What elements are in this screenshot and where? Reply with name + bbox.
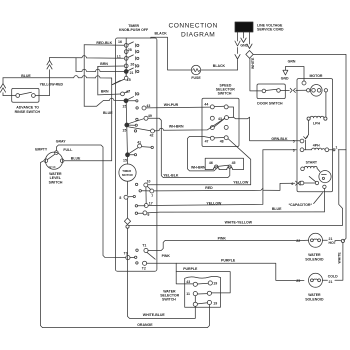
wire blue from timer contact 9 to capacitor	[147, 212, 325, 213]
motor ground terminal	[302, 81, 306, 85]
wire grn-blk speed selector to motor terminal 5	[228, 117, 300, 141]
svg-text:T2: T2	[142, 267, 146, 271]
contact 11	[186, 292, 190, 296]
line voltage service cord plug	[235, 22, 253, 32]
4PH winding	[313, 144, 320, 148]
svg-text:L1: L1	[117, 55, 121, 59]
capacitor label with pointer	[289, 203, 313, 207]
svg-text:COLD: COLD	[328, 274, 338, 278]
timer contact 9	[143, 211, 147, 215]
svg-text:*CAPACITOR*: *CAPACITOR*	[289, 203, 313, 207]
svg-text:MOTOR: MOTOR	[122, 173, 134, 177]
timer contact 27	[121, 92, 125, 96]
svg-text:15: 15	[122, 105, 126, 109]
wire yellow-red from advance switch to timer L1	[35, 95, 49, 97]
svg-text:17: 17	[149, 202, 153, 206]
svg-text:SOLENOID: SOLENOID	[305, 258, 324, 262]
svg-text:22: 22	[296, 239, 300, 243]
wire from speed selector 47 to 46 terminal	[188, 136, 217, 171]
svg-text:BLUE: BLUE	[103, 111, 113, 115]
svg-text:26: 26	[130, 62, 134, 66]
svg-text:WATER: WATER	[308, 293, 321, 297]
svg-text:WH-BRN: WH-BRN	[191, 166, 206, 170]
wire red-blk into timer 16	[96, 41, 112, 45]
timer contact T2	[143, 261, 147, 265]
svg-text:1: 1	[335, 145, 337, 149]
wire yel-blk from timer contact 49 down to 45 terminal	[163, 173, 179, 177]
node: vertical joining terminal 3, red and yellow	[148, 150, 263, 206]
timer box	[119, 24, 149, 32]
svg-text:49: 49	[148, 114, 152, 118]
wire capacitor terminal down to blue wire	[323, 189, 325, 212]
svg-text:15: 15	[122, 129, 126, 133]
timer contact T1	[144, 248, 148, 252]
wire white run along top to right edge	[253, 54, 346, 240]
svg-text:44: 44	[204, 102, 208, 106]
svg-text:47: 47	[205, 139, 209, 143]
wire gray feed to contact 15 bus	[84, 98, 124, 106]
svg-text:15: 15	[123, 158, 127, 162]
svg-text:43: 43	[186, 280, 190, 284]
motor overload protector	[311, 85, 323, 97]
svg-text:WHITE: WHITE	[338, 252, 342, 264]
svg-text:43: 43	[218, 117, 222, 121]
svg-text:6: 6	[291, 182, 293, 186]
wire purple from timer T2 to cold solenoid	[221, 258, 236, 262]
water level switch	[45, 152, 62, 169]
svg-text:16: 16	[118, 40, 122, 44]
svg-text:GRN: GRN	[288, 60, 296, 64]
wire white-yellow from timer to motor terminal 1	[225, 220, 253, 224]
svg-text:42: 42	[150, 134, 154, 138]
svg-text:BRN: BRN	[101, 90, 109, 94]
svg-text:11: 11	[186, 292, 190, 296]
wire purple branch to water selector switch	[183, 267, 198, 271]
wire wh-pur timer 43 to speed selector 44	[164, 103, 179, 107]
timer motor lead and junction 8	[127, 181, 129, 194]
contact 43	[210, 116, 214, 120]
svg-text:HOT: HOT	[329, 241, 337, 245]
svg-text:19: 19	[213, 302, 217, 306]
terminal 6	[300, 181, 304, 185]
wire gray from water level switch to timer T0	[56, 145, 125, 258]
door switch S1	[257, 84, 285, 99]
svg-text:PINK: PINK	[218, 236, 227, 240]
wire branch to contact 21	[75, 58, 77, 72]
svg-text:MOTOR: MOTOR	[310, 74, 323, 78]
motor box	[310, 74, 323, 78]
connector diamond timer motor	[124, 218, 130, 224]
svg-text:BLACK: BLACK	[213, 64, 226, 68]
timer contact 42	[134, 130, 136, 132]
svg-text:15: 15	[127, 78, 131, 82]
speed selector switch	[216, 84, 235, 96]
svg-text:FULL: FULL	[63, 148, 73, 152]
svg-text:SWITCH: SWITCH	[162, 298, 176, 302]
svg-text:43: 43	[146, 104, 150, 108]
svg-text:GRAY: GRAY	[56, 140, 66, 144]
cold water solenoid	[309, 273, 323, 287]
timer junction 15 mid	[125, 103, 128, 123]
svg-text:BRN: BRN	[100, 62, 108, 66]
water selector switch	[160, 290, 179, 302]
GND lead of service cord	[243, 32, 245, 38]
terminal 5	[300, 139, 304, 143]
wire white service lead + connector diamond	[249, 32, 251, 44]
timer contact bus wire	[125, 38, 127, 76]
svg-text:YELLOW-RED: YELLOW-RED	[40, 83, 64, 87]
timer motor	[127, 157, 129, 164]
timer contact L1	[124, 57, 128, 61]
title CONNECTION DIAGRAM	[169, 23, 218, 39]
svg-text:41: 41	[137, 141, 141, 145]
contact 47 48	[210, 136, 214, 140]
fuse F1	[191, 65, 200, 74]
svg-text:WH-PUR: WH-PUR	[164, 103, 179, 107]
timer contact 17	[144, 204, 148, 208]
svg-text:GRN-BLK: GRN-BLK	[271, 137, 288, 141]
contact row E/F	[210, 126, 214, 130]
green ground wire GRN	[288, 60, 296, 64]
svg-text:48: 48	[220, 140, 224, 144]
advance to rinse switch	[12, 88, 39, 102]
timer contact 10	[144, 183, 148, 187]
svg-text:21: 21	[329, 280, 333, 284]
ground symbol GND	[283, 70, 288, 75]
wire black service lead	[237, 32, 239, 41]
contact 43 19	[186, 280, 190, 284]
svg-text:SWITCH: SWITCH	[49, 181, 63, 185]
svg-text:12 14: 12 14	[48, 165, 55, 169]
terminal 3	[300, 148, 304, 152]
timer junction 15 bus top	[124, 99, 128, 103]
svg-text:BLUE: BLUE	[272, 207, 282, 211]
svg-text:WHITE-BLUE: WHITE-BLUE	[143, 313, 166, 317]
svg-text:WH-BRN: WH-BRN	[169, 125, 184, 129]
wire overload to LPH winding	[325, 92, 327, 117]
svg-text:PURPLE: PURPLE	[183, 267, 198, 271]
contact bottom 19	[193, 302, 197, 306]
svg-text:PINK: PINK	[162, 254, 171, 258]
svg-text:START: START	[306, 161, 318, 165]
svg-text:YELLOW: YELLOW	[233, 180, 249, 184]
timer junction 21	[124, 70, 128, 74]
timer contact T0	[126, 256, 130, 260]
wire brn into timer 26	[100, 62, 108, 66]
svg-text:BLUE: BLUE	[71, 157, 81, 161]
svg-text:RED: RED	[205, 186, 213, 190]
timer contact 26	[124, 64, 128, 68]
timer contact 16	[124, 44, 128, 48]
svg-text:ORANGE: ORANGE	[137, 323, 153, 327]
svg-text:EMPTY: EMPTY	[35, 148, 48, 152]
wire yellow from timer contact 10 to speed selector 48	[148, 184, 251, 186]
svg-text:21: 21	[130, 71, 134, 75]
svg-text:YELLOW: YELLOW	[206, 201, 222, 205]
timer contact 41	[138, 144, 142, 148]
timer contact 49	[136, 118, 138, 120]
wire blue from water level switch to timer 15	[64, 160, 112, 162]
wire white-blue from timer to water selector	[143, 313, 166, 317]
svg-text:KNOB-PUSH OFF: KNOB-PUSH OFF	[119, 28, 149, 32]
svg-text:T0: T0	[124, 251, 128, 255]
connector diamond (white)	[246, 51, 253, 59]
svg-text:SERVICE CORD: SERVICE CORD	[257, 28, 284, 32]
timer contact 15	[124, 76, 128, 80]
svg-text:RED-BLK: RED-BLK	[96, 41, 112, 45]
wire red from timer contact 7 to motor terminals 3 and 6	[205, 186, 213, 190]
svg-text:WHITE-YELLOW: WHITE-YELLOW	[225, 220, 253, 224]
wire white down to door switch	[250, 58, 262, 91]
start switch circle	[319, 171, 331, 183]
svg-text:CONNECTION: CONNECTION	[169, 23, 218, 30]
wire pink from timer T1 to hot solenoid	[218, 236, 227, 240]
svg-text:45: 45	[232, 161, 236, 165]
svg-text:3: 3	[293, 148, 295, 152]
capacitor terminal	[323, 185, 326, 188]
wire wh-brn from timer contact 42 to speed selector	[169, 125, 184, 129]
svg-text:PURPLE: PURPLE	[221, 258, 236, 262]
timer contact 7	[150, 189, 154, 193]
svg-text:BLACK: BLACK	[155, 31, 168, 35]
svg-text:DOOR SWITCH: DOOR SWITCH	[257, 102, 283, 106]
svg-text:BLUE: BLUE	[21, 74, 31, 78]
wire black fuse to service lead	[201, 69, 238, 71]
svg-text:SOLENOID: SOLENOID	[305, 298, 324, 302]
svg-text:9: 9	[147, 213, 149, 217]
wire door switch to motor with connector	[280, 89, 289, 91]
svg-text:8: 8	[119, 196, 121, 200]
svg-text:LPH: LPH	[313, 122, 320, 126]
wire brn into timer 27	[101, 90, 109, 94]
contact 44	[204, 102, 208, 106]
svg-text:YEL-BLK: YEL-BLK	[163, 173, 179, 177]
wire 4PH to terminal 1 and white wire	[329, 149, 334, 151]
wire link contact 10 to 17	[145, 187, 147, 203]
wire blue from advance switch to timer 15	[3, 95, 16, 97]
wire orange from water level switch to water selector	[137, 323, 153, 327]
motor speed switch 46 45	[205, 158, 243, 169]
svg-text:RINSE SWITCH: RINSE SWITCH	[15, 110, 41, 114]
START winding	[306, 161, 318, 165]
svg-text:DIAGRAM: DIAGRAM	[181, 32, 215, 39]
svg-text:4PH: 4PH	[313, 144, 320, 148]
svg-text:25: 25	[296, 279, 300, 283]
svg-text:46: 46	[209, 161, 213, 165]
svg-text:28: 28	[128, 48, 132, 52]
svg-text:5: 5	[293, 140, 295, 144]
timer contact 43	[136, 107, 138, 109]
svg-text:FUSE: FUSE	[191, 76, 201, 80]
timer junction 15 low	[126, 127, 129, 153]
svg-text:T1: T1	[142, 243, 146, 247]
svg-text:19: 19	[213, 282, 217, 286]
svg-text:GND: GND	[281, 76, 289, 80]
LPH winding	[307, 117, 310, 120]
svg-text:10: 10	[147, 180, 151, 184]
svg-text:WHITE: WHITE	[251, 57, 255, 69]
wire LPH to terminal 5	[306, 120, 309, 138]
svg-text:WATER: WATER	[308, 253, 321, 257]
svg-text:7: 7	[151, 194, 153, 198]
timer contact 28	[124, 50, 128, 54]
svg-text:SWITCH: SWITCH	[218, 92, 232, 96]
wire black from timer to fuse	[155, 31, 168, 35]
hot water solenoid	[309, 233, 323, 247]
